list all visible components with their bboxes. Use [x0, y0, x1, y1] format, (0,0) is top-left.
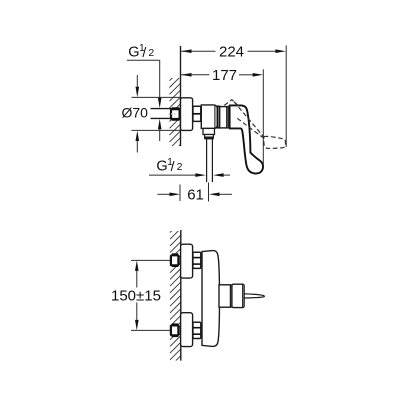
svg-text:Ø70: Ø70: [122, 105, 149, 121]
svg-text:/: /: [171, 158, 175, 174]
svg-text:G: G: [128, 45, 139, 61]
svg-text:2: 2: [177, 161, 183, 173]
svg-text:G: G: [156, 158, 167, 174]
svg-text:177: 177: [212, 67, 237, 84]
svg-text:/: /: [142, 44, 146, 60]
svg-text:224: 224: [219, 43, 244, 60]
svg-text:61: 61: [187, 187, 204, 204]
svg-text:150±15: 150±15: [111, 287, 161, 304]
svg-text:2: 2: [148, 47, 154, 59]
